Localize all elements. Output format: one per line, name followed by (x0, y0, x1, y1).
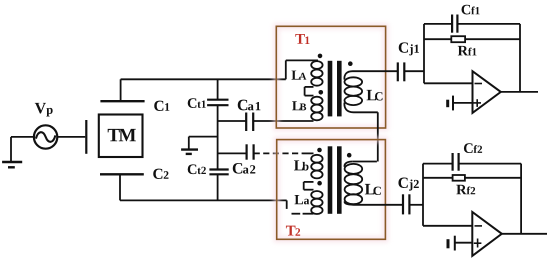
label Ca1 (238, 100, 261, 111)
label La (295, 195, 310, 204)
label LB (292, 101, 306, 110)
wire bus upper (217, 79, 219, 99)
dot Lb (317, 148, 322, 153)
capacitor C1 (100, 79, 144, 101)
label Lc (T1) (367, 90, 383, 101)
injection electrode (85, 120, 87, 154)
wire to ground (189, 137, 218, 149)
label Ct2 (188, 164, 206, 174)
wire (218, 120, 247, 122)
dot Lc1 (348, 61, 353, 66)
wire LA to LB (305, 87, 314, 96)
label C2 (153, 169, 168, 179)
label Cf2 (464, 143, 482, 153)
inductor LB (311, 97, 322, 121)
label C1 (154, 101, 169, 111)
wire output U2 (502, 233, 547, 235)
wire feedback right (519, 24, 521, 92)
wire series link (377, 112, 379, 161)
capacitor Cj2 (403, 194, 409, 214)
wire inverting input (424, 24, 473, 83)
ground (181, 150, 198, 154)
wire inverting input 2 (423, 164, 472, 226)
transformer T2 box (277, 140, 386, 240)
wire bottom rail (120, 199, 287, 201)
capacitor Ct1 (207, 100, 228, 106)
label Cj2 (398, 178, 418, 191)
label Cj1 (399, 42, 419, 55)
dashed wire (254, 152, 303, 154)
inductor Lb (311, 155, 322, 179)
wire Lc1 bottom (354, 111, 378, 113)
ground (2, 137, 22, 167)
label Ct1 (188, 98, 206, 108)
transformer T1 box (276, 26, 385, 128)
capacitor C2 (100, 174, 144, 200)
label T2 (286, 226, 300, 236)
label Lb (294, 160, 309, 170)
dot LA (318, 54, 323, 59)
dashed link (292, 213, 301, 215)
core T2 (328, 146, 342, 214)
wire (253, 120, 313, 122)
bias battery U2 (448, 236, 472, 251)
wire (57, 136, 85, 138)
inductor La (311, 191, 322, 214)
wire entry T2 (286, 200, 288, 209)
bias battery U1 (448, 96, 473, 111)
op-amp U1 (473, 71, 501, 113)
wire output U1 (501, 91, 538, 93)
wire top rail (121, 78, 286, 80)
label Lc (T2) (365, 184, 381, 195)
capacitor Ca2 (247, 144, 254, 159)
pink halo T2 (277, 140, 386, 240)
voltage source Vp (34, 125, 57, 148)
dot La (317, 181, 322, 186)
label Rf1 (458, 46, 477, 55)
label Rf2 (456, 185, 475, 194)
capacitor Cj1 (398, 62, 405, 81)
wire (409, 204, 423, 206)
core T1 (328, 61, 342, 117)
label Ca2 (233, 163, 256, 174)
resistor Rf2 (423, 175, 521, 181)
wire bus lower (217, 174, 219, 200)
wire bus middle (217, 105, 219, 169)
dot Lc2 (347, 153, 352, 158)
TM block (99, 115, 143, 158)
label Cf1 (462, 5, 480, 15)
wire Lc2 to Cj2 (354, 204, 404, 206)
inductor Lc (T2) (344, 162, 362, 205)
inductor Lc (T1) (344, 71, 362, 112)
wire (11, 136, 34, 138)
op-amp U2 (472, 212, 502, 256)
wire La bottom lead (303, 213, 314, 215)
inductor LA (311, 61, 322, 86)
capacitor Ca1 (246, 113, 253, 132)
label LA (292, 71, 307, 80)
wire Lb top lead (303, 152, 314, 154)
dot LB (319, 90, 324, 95)
wire (404, 70, 424, 72)
label T1 (295, 34, 309, 44)
wire Lb to La (304, 182, 314, 190)
resistor Rf1 (424, 36, 520, 42)
capacitor Cf1 (424, 15, 520, 33)
wire Lc1 to Cj1 (353, 70, 398, 72)
wire into LA (286, 60, 318, 79)
wire feedback right 2 (520, 164, 522, 234)
capacitor Cf2 (423, 153, 521, 171)
wire (218, 152, 247, 154)
label Vp (35, 103, 53, 117)
capacitor Ct2 (209, 170, 228, 175)
wire Lc2 top (352, 161, 377, 163)
